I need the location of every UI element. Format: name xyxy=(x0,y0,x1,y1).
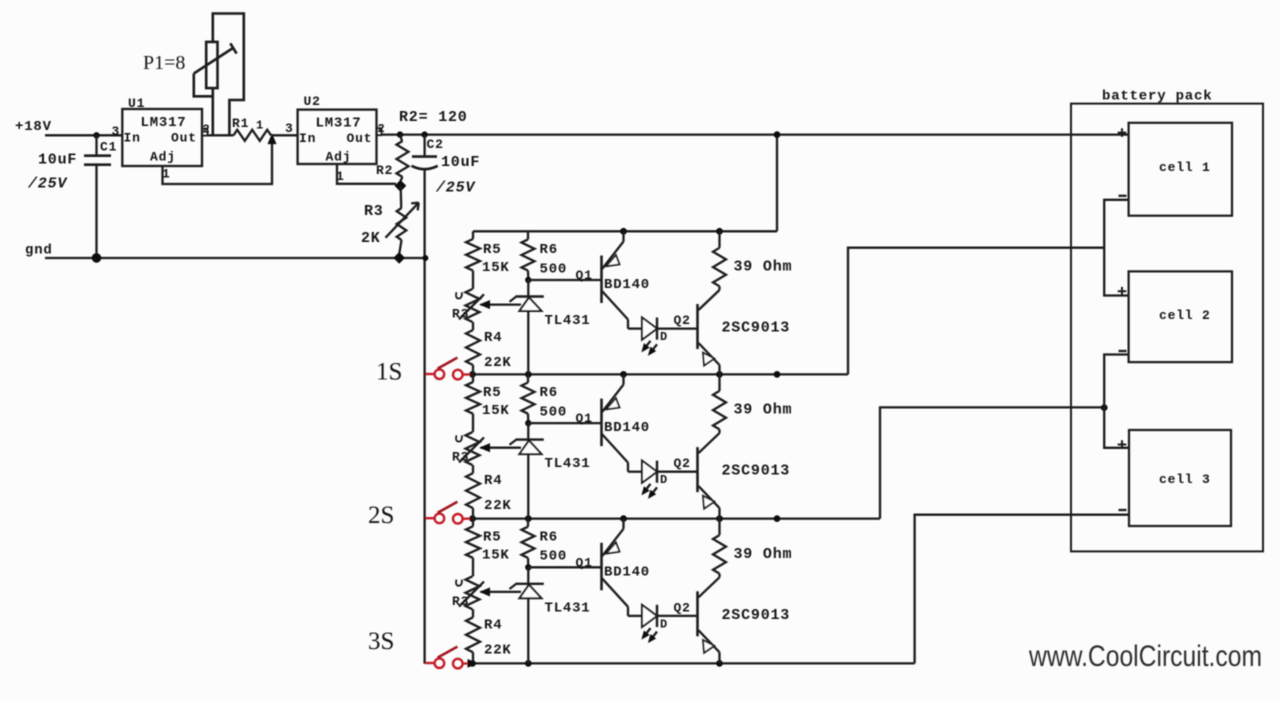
svg-text:cell 1: cell 1 xyxy=(1159,160,1211,175)
battery pack box xyxy=(1071,104,1263,552)
pin 2 U2 xyxy=(377,122,386,136)
label 1S xyxy=(376,359,402,386)
wire TL431 ref stage3 xyxy=(481,588,522,596)
resistor 39 Ohm stage3 xyxy=(713,519,726,578)
label 2SC9013 stage2 xyxy=(722,463,791,480)
wire Q1 base stage2 xyxy=(528,422,601,424)
label R4 22K stage1 xyxy=(484,330,512,371)
label R5 15K stage2 xyxy=(482,385,510,419)
resistor R4 stage2 xyxy=(466,473,480,518)
LED D stage2 xyxy=(642,461,657,498)
svg-text:Q1: Q1 xyxy=(576,411,593,426)
svg-text:cell 2: cell 2 xyxy=(1159,308,1211,323)
label TL431 stage3 xyxy=(545,600,591,616)
transistor Q1 BD140 stage1 xyxy=(602,231,643,328)
svg-text:+18V: +18V xyxy=(15,119,52,135)
transistor Q1 BD140 stage2 xyxy=(602,374,643,471)
label P1=8 xyxy=(143,52,185,74)
wire LED to Q2 base stage2 xyxy=(657,471,698,473)
svg-text:15K: 15K xyxy=(482,403,510,419)
op-amp U2 LM317 regulator xyxy=(298,94,377,165)
transistor Q2 2SC9013 stage3 xyxy=(698,577,720,663)
svg-text:R3: R3 xyxy=(364,203,384,220)
plus cell1 xyxy=(1118,128,1127,137)
pin 2 U1 xyxy=(202,123,211,137)
svg-text:3: 3 xyxy=(112,124,121,139)
junction rail A x719 xyxy=(716,228,723,235)
label R6 500 stage2 xyxy=(540,385,568,420)
svg-text:1: 1 xyxy=(256,119,264,133)
wire tap2 riser xyxy=(880,407,1104,518)
arrow trimmer wiper stage1 xyxy=(456,292,484,319)
svg-text:/25V: /25V xyxy=(435,180,476,197)
label R3 xyxy=(364,203,384,220)
svg-text:R5: R5 xyxy=(483,529,501,545)
svg-text:BD140: BD140 xyxy=(604,564,650,580)
svg-text:39 Ohm: 39 Ohm xyxy=(734,546,793,563)
resistor R4 stage1 xyxy=(466,330,480,374)
label R5 15K stage3 xyxy=(482,529,510,563)
svg-text:R5: R5 xyxy=(483,385,501,401)
label C1 xyxy=(100,140,117,155)
svg-text:22K: 22K xyxy=(484,642,512,658)
svg-text:R6: R6 xyxy=(540,385,558,401)
shunt regulator TL431 stage3 xyxy=(510,567,544,663)
LED D stage3 xyxy=(642,605,657,642)
node +18V xyxy=(15,119,52,135)
svg-text:cell 3: cell 3 xyxy=(1159,472,1211,487)
svg-text:3S: 3S xyxy=(368,628,394,655)
resistor R6 stage1 xyxy=(522,231,535,280)
wire tap1 riser xyxy=(848,248,1104,375)
label R4 22K stage3 xyxy=(484,617,512,658)
junction rail C x528 xyxy=(525,515,532,522)
wire P1 wiper arm xyxy=(194,43,237,73)
value /25V (C2) xyxy=(435,180,476,197)
value 10uF (C2) xyxy=(441,154,480,171)
resistor R5 stage1 xyxy=(466,231,480,270)
svg-text:R5: R5 xyxy=(483,242,501,258)
junction tap2 bracket xyxy=(1101,404,1108,411)
svg-text:Adj: Adj xyxy=(150,150,176,165)
junction R6 bottom stage3 xyxy=(525,564,531,570)
plus cell2 xyxy=(1118,287,1127,296)
label R6 500 stage1 xyxy=(540,242,568,277)
label Q1 stage3 xyxy=(576,555,593,570)
svg-text:Q2: Q2 xyxy=(674,600,691,615)
svg-text:22K: 22K xyxy=(484,498,512,514)
junction bus gnd xyxy=(422,255,428,261)
svg-text:10uF: 10uF xyxy=(441,154,480,171)
svg-text:500: 500 xyxy=(540,404,568,420)
junction rail B x777 xyxy=(774,371,781,378)
pin 1 U2 xyxy=(336,169,345,184)
pin 3 U1 xyxy=(112,124,121,139)
svg-text:2S: 2S xyxy=(368,502,394,529)
cell 3 xyxy=(1129,430,1231,526)
junction C2 top xyxy=(421,131,427,137)
resistor R2 xyxy=(397,135,409,181)
switch 2S xyxy=(425,502,470,524)
svg-text:BD140: BD140 xyxy=(604,277,650,293)
capacitor C1 xyxy=(84,135,111,258)
wire rail C (2S) xyxy=(470,517,880,519)
resistor 39 Ohm stage2 xyxy=(713,374,726,433)
minus cell3 xyxy=(1119,509,1127,511)
label Q2 stage1 xyxy=(674,313,691,328)
svg-text:Out: Out xyxy=(171,131,197,146)
label TL431 stage1 xyxy=(545,313,591,329)
junction rail B x623 xyxy=(620,371,627,378)
label 39 Ohm stage2 xyxy=(734,402,793,419)
svg-text:U1: U1 xyxy=(128,96,145,111)
potentiometer R3 trimmer stage3 xyxy=(466,558,480,617)
resistor R5 stage3 xyxy=(466,519,480,558)
label 3S xyxy=(368,628,394,655)
label R1 xyxy=(232,116,264,133)
switch 1S xyxy=(425,358,470,380)
svg-text:2K: 2K xyxy=(361,230,381,247)
svg-text:C2: C2 xyxy=(427,137,444,152)
svg-text:Q2: Q2 xyxy=(674,456,691,471)
svg-text:In: In xyxy=(124,131,141,146)
svg-text:R4: R4 xyxy=(484,473,502,489)
svg-text:500: 500 xyxy=(540,261,568,277)
junction rail D x472 xyxy=(469,660,476,667)
junction R3 bottom diamond xyxy=(394,253,404,263)
potentiometer R3 trimmer stage2 xyxy=(466,414,480,473)
label Q2 stage3 xyxy=(674,600,691,615)
minus cell2 xyxy=(1119,350,1127,352)
label R2= 120 xyxy=(399,109,468,126)
svg-text:R2: R2 xyxy=(376,163,393,178)
svg-text:battery pack: battery pack xyxy=(1102,89,1212,105)
arrow trimmer wiper stage2 xyxy=(456,435,484,462)
label R6 500 stage3 xyxy=(540,529,568,564)
label D stage1 xyxy=(660,330,668,344)
label R3 trimmer stage2 xyxy=(452,450,469,465)
junction C1 top xyxy=(93,132,99,138)
resistor R6 stage2 xyxy=(522,374,535,423)
junction rail D arrow xyxy=(468,660,477,667)
junction rail B x719 xyxy=(716,371,723,378)
svg-text:Out: Out xyxy=(347,131,373,146)
label 2S xyxy=(368,502,394,529)
svg-text:R3: R3 xyxy=(452,307,469,322)
svg-text:1S: 1S xyxy=(376,359,402,386)
junction rail C x472 xyxy=(469,515,476,522)
svg-text:3: 3 xyxy=(285,121,294,136)
svg-text:U2: U2 xyxy=(304,94,321,109)
svg-text:Q1: Q1 xyxy=(576,268,593,283)
label battery pack xyxy=(1102,89,1212,105)
op-amp U1 LM317 regulator xyxy=(122,96,202,166)
label TL431 stage2 xyxy=(545,456,591,472)
svg-text:2SC9013: 2SC9013 xyxy=(722,607,791,624)
arrow trimmer wiper stage3 xyxy=(456,580,484,607)
label R4 22K stage2 xyxy=(484,473,512,514)
transistor Q2 2SC9013 stage1 xyxy=(698,290,720,374)
label D stage2 xyxy=(660,473,668,487)
switch 3S xyxy=(425,647,470,669)
label 39 Ohm stage3 xyxy=(734,546,793,563)
wire P1 top bracket xyxy=(213,14,244,136)
wire U2 adj xyxy=(337,164,396,184)
wire cell2-cell3 bracket xyxy=(1104,355,1128,448)
svg-text:22K: 22K xyxy=(484,355,512,371)
svg-text:15K: 15K xyxy=(482,547,510,563)
wire rail B (1S) xyxy=(470,373,848,375)
junction gnd C1 xyxy=(92,253,102,263)
junction R6 bottom stage2 xyxy=(525,420,531,426)
svg-text:TL431: TL431 xyxy=(545,456,591,472)
wire rail D (3S) xyxy=(470,662,914,664)
svg-text:Q1: Q1 xyxy=(576,555,593,570)
junction rail C x719 xyxy=(716,515,723,522)
label R3 trimmer stage1 xyxy=(452,307,469,322)
cell 1 xyxy=(1129,123,1232,216)
label 2SC9013 stage1 xyxy=(722,320,791,337)
watermark www.CoolCircuit.com xyxy=(1028,640,1262,673)
svg-text:R4: R4 xyxy=(484,617,502,633)
wire U1 adj feedback xyxy=(163,139,273,184)
svg-text:TL431: TL431 xyxy=(545,313,591,329)
wire U1 out xyxy=(208,134,234,136)
pin 3 U2 xyxy=(285,121,294,136)
wire LED to Q2 base stage3 xyxy=(657,615,698,617)
svg-text:LM317: LM317 xyxy=(141,115,187,131)
label 2K xyxy=(361,230,381,247)
wire Q1 base stage3 xyxy=(528,566,601,568)
resistor R5 stage2 xyxy=(466,374,480,413)
junction rail C x777 xyxy=(774,515,781,522)
shunt regulator TL431 stage2 xyxy=(510,423,544,518)
label 2SC9013 stage3 xyxy=(722,607,791,624)
wire P1 bottom lead xyxy=(212,88,215,135)
svg-text:Q2: Q2 xyxy=(674,313,691,328)
svg-text:R3: R3 xyxy=(452,594,469,609)
junction adj arrow xyxy=(268,135,276,144)
pin 1 U1 xyxy=(162,167,171,182)
junction R6 bottom stage1 xyxy=(525,277,531,283)
capacitor C2 xyxy=(412,135,438,170)
wire vertical bus from C2 xyxy=(423,170,425,664)
svg-text:15K: 15K xyxy=(482,260,510,276)
resistor R4 stage3 xyxy=(466,617,480,663)
svg-text:C1: C1 xyxy=(100,140,117,155)
wire TL431 ref stage2 xyxy=(481,444,522,452)
svg-text:R6: R6 xyxy=(540,242,558,258)
wire riser to output xyxy=(776,135,778,232)
svg-text:Adj: Adj xyxy=(326,150,352,165)
svg-text:10uF: 10uF xyxy=(38,152,77,169)
svg-text:500: 500 xyxy=(540,549,568,565)
wire stage1 top rail xyxy=(473,230,777,232)
minus cell1 xyxy=(1119,195,1127,197)
wire +18V input xyxy=(45,134,122,136)
svg-text:R4: R4 xyxy=(484,330,502,346)
value /25V (C1) xyxy=(27,176,68,193)
value 10uF (C1) xyxy=(38,152,77,169)
junction rail C x623 xyxy=(620,515,627,522)
resistor 39 Ohm stage1 xyxy=(713,231,726,290)
label BD140 stage1 xyxy=(604,277,650,293)
label BD140 stage2 xyxy=(604,420,650,436)
resistor R6 stage3 xyxy=(522,519,535,568)
node gnd xyxy=(25,243,53,259)
junction rail B x528 xyxy=(525,371,532,378)
svg-text:R6: R6 xyxy=(540,529,558,545)
junction rail D x719 xyxy=(716,660,723,667)
label Q2 stage2 xyxy=(674,456,691,471)
wire cell3 minus riser xyxy=(915,515,1129,664)
label R5 15K stage1 xyxy=(482,242,510,276)
svg-text:39 Ohm: 39 Ohm xyxy=(734,259,793,276)
svg-text:gnd: gnd xyxy=(25,243,53,259)
label R3 trimmer stage3 xyxy=(452,594,469,609)
svg-text:/25V: /25V xyxy=(27,176,68,193)
wire Q1 base stage1 xyxy=(528,279,601,281)
resistor R1 xyxy=(234,130,272,141)
svg-text:P1=8: P1=8 xyxy=(143,52,185,74)
wire P1 wiper to bottom xyxy=(194,74,213,97)
svg-text:D: D xyxy=(660,330,668,344)
svg-text:2SC9013: 2SC9013 xyxy=(722,463,791,480)
transistor Q2 2SC9013 stage2 xyxy=(698,433,720,518)
junction R2/R3 diamond xyxy=(395,181,405,191)
wire gnd rail xyxy=(45,257,425,259)
wire TL431 ref stage1 xyxy=(481,301,522,309)
label C2 xyxy=(427,137,444,152)
label Q1 stage1 xyxy=(576,268,593,283)
shunt regulator TL431 stage1 xyxy=(510,280,544,374)
svg-text:In: In xyxy=(299,131,316,146)
wire LED to Q2 base stage1 xyxy=(657,327,698,329)
svg-text:www.CoolCircuit.com: www.CoolCircuit.com xyxy=(1028,640,1262,673)
wire cell1-cell2 bracket xyxy=(1104,200,1128,296)
potentiometer R3 2K xyxy=(397,186,407,253)
label BD140 stage3 xyxy=(604,564,650,580)
svg-text:D: D xyxy=(660,617,668,631)
potentiometer R3 trimmer stage1 xyxy=(466,271,480,330)
svg-text:TL431: TL431 xyxy=(545,600,591,616)
label Q1 stage2 xyxy=(576,411,593,426)
svg-text:LM317: LM317 xyxy=(316,115,362,131)
svg-text:D: D xyxy=(660,473,668,487)
cell 2 xyxy=(1129,271,1232,362)
wire main output line xyxy=(382,133,1129,135)
svg-text:R2= 120: R2= 120 xyxy=(399,109,468,126)
label 39 Ohm stage1 xyxy=(734,259,793,276)
svg-text:BD140: BD140 xyxy=(604,420,650,436)
junction rail A x623 xyxy=(620,228,627,235)
label D stage3 xyxy=(660,617,668,631)
svg-text:2SC9013: 2SC9013 xyxy=(722,320,791,337)
label R2 xyxy=(376,163,393,178)
potentiometer P1 body xyxy=(206,42,217,88)
junction rail B x472 xyxy=(469,371,476,378)
junction rail D x528 xyxy=(525,660,532,667)
transistor Q1 BD140 stage3 xyxy=(602,519,643,616)
arrow R3 wiper xyxy=(386,203,419,238)
svg-text:R3: R3 xyxy=(452,450,469,465)
LED D stage1 xyxy=(642,318,657,355)
junction R2 top xyxy=(397,131,403,137)
junction riser output xyxy=(774,131,781,138)
svg-text:39 Ohm: 39 Ohm xyxy=(734,402,793,419)
svg-text:R1: R1 xyxy=(232,116,249,131)
wire R1 to U2 xyxy=(271,134,298,136)
plus cell3 xyxy=(1118,440,1127,449)
